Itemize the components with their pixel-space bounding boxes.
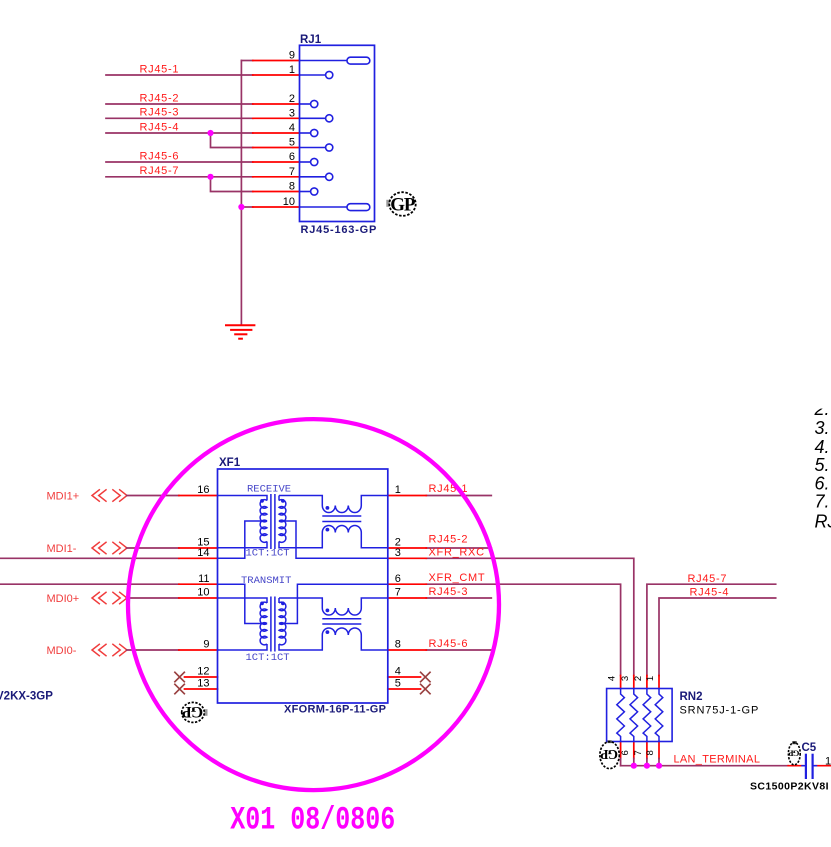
- polarity dot receive choke top: [326, 506, 330, 510]
- svg-text:XF1: XF1: [219, 457, 241, 469]
- svg-text:GP: GP: [600, 747, 618, 762]
- wire LAN_TERMINAL bus: [621, 765, 789, 767]
- svg-text:1: 1: [289, 64, 295, 76]
- pin stub RN2 pin3 top: [633, 676, 635, 689]
- XF1 receive choke core: [322, 515, 361, 517]
- no-connect X pin4: [421, 672, 430, 681]
- svg-text:RJ45-1: RJ45-1: [140, 63, 180, 75]
- stamp GP near RJ1: [386, 192, 416, 216]
- highlight circle around XF1: [128, 419, 499, 790]
- wire RJ45-7 net: [106, 176, 253, 178]
- svg-text:RJ45-6: RJ45-6: [429, 638, 469, 650]
- pin stub XF1 pin10: [179, 597, 218, 599]
- svg-text:V2KX-3GP: V2KX-3GP: [0, 691, 53, 703]
- wire RJ45-3 net: [106, 117, 253, 119]
- transformer XF1 body: [218, 469, 388, 703]
- junction dot RJ45-7/pin8: [207, 174, 213, 180]
- svg-text:10: 10: [197, 587, 209, 599]
- port MDI1+ chevrons: [92, 490, 127, 501]
- svg-text:13: 13: [197, 678, 209, 690]
- svg-text:11: 11: [198, 573, 209, 585]
- wire pin9 to bus: [241, 60, 252, 62]
- svg-text:RJ: RJ: [815, 511, 831, 531]
- svg-text:2: 2: [633, 676, 644, 681]
- resistor RN2 element 2: [630, 689, 638, 742]
- wire pin11 off-page: [0, 583, 179, 585]
- RJ1 pin10 internal lead and oval: [300, 206, 348, 208]
- pin stub XF1 pin2: [388, 547, 427, 549]
- resistor RN2 element 3: [643, 689, 651, 742]
- svg-text:8: 8: [289, 181, 295, 193]
- svg-text:9: 9: [289, 50, 295, 62]
- pin stub XF1 pin3: [388, 557, 427, 559]
- XF1 receive choke top winding to pin1: [279, 496, 322, 506]
- svg-text:5: 5: [289, 137, 295, 149]
- pin stub RN2 pin5 bottom: [620, 742, 622, 759]
- wire ground bus vertical: [240, 61, 242, 326]
- RJ1 pin4 internal lead and circle: [300, 132, 311, 134]
- svg-text:RJ1: RJ1: [300, 34, 322, 46]
- svg-text:3: 3: [289, 107, 295, 119]
- pin stub RJ1 pin10: [253, 206, 300, 208]
- svg-text:RJ45-3: RJ45-3: [140, 107, 180, 119]
- pin stub XF1 pin6: [388, 583, 427, 585]
- svg-text:1: 1: [395, 484, 401, 496]
- port MDI0+ chevrons: [92, 592, 127, 603]
- ground symbol: [225, 325, 255, 339]
- resistor network RN2 body: [607, 689, 673, 742]
- pin stub RJ1 pin1: [253, 74, 300, 76]
- XF1 transmit core: [270, 597, 272, 652]
- pin stub RJ1 pin7: [253, 176, 300, 178]
- pin stub XF1 pin16: [179, 495, 218, 497]
- no-connect X pin5: [421, 684, 430, 693]
- wire MDI1- to pin15: [127, 547, 179, 549]
- svg-text:9: 9: [203, 639, 209, 651]
- svg-text:MDI0+: MDI0+: [47, 593, 80, 605]
- pin stub XF1 pin14: [179, 557, 218, 559]
- pin stub RJ1 pin6: [253, 161, 300, 163]
- polarity dot transmit choke top: [326, 609, 330, 613]
- wire RJ45-4 to RN2: [659, 598, 776, 676]
- svg-text:1: 1: [825, 755, 831, 767]
- pin stub XF1 pin15: [179, 547, 218, 549]
- wire RJ45-1 net: [106, 74, 253, 76]
- wire RN2 pin5 to LAN: [620, 759, 622, 766]
- svg-text:4: 4: [289, 122, 295, 134]
- svg-text:5.: 5.: [815, 455, 830, 475]
- svg-text:XFR_CMT: XFR_CMT: [429, 572, 486, 584]
- svg-text:14: 14: [197, 547, 209, 559]
- XF1 receive secondary winding: [278, 496, 280, 501]
- svg-text:4.: 4.: [815, 437, 830, 457]
- pin stub XF1 pin11: [179, 583, 218, 585]
- pin stub RJ1 pin3: [253, 117, 300, 119]
- white mask clipping top of note 2: [805, 396, 831, 409]
- svg-text:RJ45-163-GP: RJ45-163-GP: [301, 224, 378, 236]
- pin stub RJ1 pin4: [253, 132, 300, 134]
- pin stub XF1 pin1: [388, 495, 427, 497]
- svg-text:XFORM-16P-11-GP: XFORM-16P-11-GP: [284, 704, 386, 716]
- wire pin10 to bus: [241, 206, 252, 208]
- polarity dot receive choke bottom: [326, 528, 330, 532]
- wire pin7 RJ45-3: [426, 597, 491, 599]
- wire RJ45-4 net: [106, 132, 253, 134]
- XF1 receive core: [270, 494, 272, 549]
- XF1 receive primary center tap to pin14: [218, 521, 268, 558]
- wire RJ45-7 to RN2: [647, 584, 776, 675]
- pin stub RJ1 pin8: [253, 191, 300, 193]
- XF1 transmit secondary winding: [278, 598, 280, 603]
- svg-text:3: 3: [395, 547, 401, 559]
- svg-text:RJ45-7: RJ45-7: [688, 573, 728, 585]
- svg-text:RJ45-2: RJ45-2: [140, 92, 180, 104]
- svg-text:5: 5: [395, 678, 401, 690]
- svg-text:MDI1-: MDI1-: [47, 543, 77, 555]
- no-connect X pin12: [175, 672, 184, 681]
- pin stub XF1 pin7: [388, 597, 427, 599]
- RJ1 pin7 internal lead and circle: [300, 176, 326, 178]
- svg-text:1CT:1CT: 1CT:1CT: [246, 547, 290, 559]
- wire pin6 XFR_CMT: [426, 584, 620, 675]
- no-connect X pin13: [175, 684, 184, 693]
- svg-text:RJ45-6: RJ45-6: [140, 150, 180, 162]
- pin stub RJ1 pin2: [253, 103, 300, 105]
- RJ1 pin9 internal lead and oval: [300, 60, 348, 62]
- pin stub XF1 pin12: [185, 676, 218, 678]
- wire RJ45-4 branch to pin5: [211, 133, 253, 148]
- RJ1 pin2 internal lead and circle: [300, 103, 311, 105]
- RJ1 pin5 internal lead and circle: [300, 147, 326, 149]
- svg-text:RJ45-7: RJ45-7: [140, 165, 180, 177]
- svg-text:8: 8: [645, 750, 656, 755]
- pin stub C5 pin1 right: [815, 765, 831, 767]
- polarity dot transmit choke bottom: [326, 630, 330, 634]
- wire pin1 RJ45-1: [426, 495, 491, 497]
- svg-text:6.: 6.: [815, 473, 830, 493]
- svg-text:RJ45-2: RJ45-2: [429, 534, 469, 546]
- capacitor C5: [802, 755, 817, 778]
- pin stub XF1 pin9: [179, 649, 218, 651]
- svg-text:RECEIVE: RECEIVE: [247, 484, 291, 496]
- pin stub XF1 pin4: [388, 676, 421, 678]
- svg-text:GP: GP: [789, 748, 800, 758]
- svg-text:4: 4: [395, 666, 401, 678]
- wire pin3 XFR_RXC: [426, 558, 634, 675]
- svg-text:RJ45-4: RJ45-4: [690, 587, 730, 599]
- svg-text:TRANSMIT: TRANSMIT: [241, 575, 291, 587]
- svg-text:C5: C5: [802, 742, 817, 754]
- svg-text:1CT:1CT: 1CT:1CT: [246, 652, 290, 664]
- pin stub XF1 pin5: [388, 688, 421, 690]
- pin stub RN2 pin8 bottom: [658, 742, 660, 759]
- svg-text:6: 6: [289, 151, 295, 163]
- stamp GP near XF1 rotated: [182, 702, 208, 722]
- pin stub XF1 pin8: [388, 649, 427, 651]
- svg-text:LAN_TERMINAL: LAN_TERMINAL: [674, 754, 761, 766]
- polarity dot receive primary: [260, 499, 264, 503]
- polarity dot transmit secondary: [281, 602, 285, 606]
- stamp GP near C5 rotated 90: [788, 741, 800, 765]
- stamp GP near RN2 rotated: [600, 740, 619, 768]
- svg-text:12: 12: [197, 666, 209, 678]
- XF1 transmit choke top winding to pin7: [279, 598, 322, 608]
- pin stub RN2 pin1 top: [658, 676, 660, 689]
- wire RJ45-2 net: [106, 103, 253, 105]
- wire RJ45-6 net: [106, 161, 253, 163]
- svg-text:RJ45-3: RJ45-3: [429, 586, 469, 598]
- svg-text:GP: GP: [182, 703, 203, 720]
- junction dot pin10/ground bus: [238, 204, 244, 210]
- svg-text:16: 16: [197, 484, 209, 496]
- wire RN2 pin7 to LAN: [646, 759, 648, 766]
- XF1 receive choke bottom winding to pin2: [322, 526, 361, 533]
- svg-text:7.: 7.: [815, 491, 830, 511]
- svg-text:1: 1: [645, 676, 656, 681]
- svg-text:7: 7: [633, 750, 644, 755]
- XF1 transmit choke core: [322, 618, 361, 620]
- wire MDI0+ to pin10: [127, 597, 179, 599]
- wire RN2 pin8 to LAN: [658, 759, 660, 766]
- wire pin8 RJ45-6: [426, 649, 491, 651]
- svg-text:MDI1+: MDI1+: [47, 491, 80, 503]
- svg-text:RJ45-4: RJ45-4: [140, 121, 180, 133]
- junction dot RN2 pin8: [656, 763, 662, 769]
- XF1 transmit choke bottom winding to pin8: [322, 628, 361, 635]
- svg-text:GP: GP: [390, 194, 416, 215]
- pin stub RN2 pin7 bottom: [646, 742, 648, 759]
- port MDI1- chevrons: [92, 542, 127, 553]
- svg-text:3: 3: [620, 676, 631, 681]
- RJ1 pin6 internal lead and circle: [300, 161, 311, 163]
- XF1 transmit primary center tap to pin11: [218, 584, 268, 623]
- svg-text:RN2: RN2: [680, 691, 703, 703]
- svg-text:10: 10: [283, 196, 295, 208]
- RJ1 pin3 internal lead and circle: [300, 117, 326, 119]
- svg-text:7: 7: [289, 166, 295, 178]
- RJ1 pin8 internal lead and circle: [300, 191, 311, 193]
- pin stub C5 pin left: [788, 765, 803, 767]
- XF1 receive secondary center tap to pin3: [279, 521, 388, 558]
- pin stub RN2 pin6 bottom: [633, 742, 635, 759]
- svg-text:2: 2: [289, 93, 295, 105]
- resistor RN2 element 1: [617, 689, 625, 742]
- notes list italic: [814, 399, 831, 531]
- svg-text:6: 6: [620, 750, 631, 755]
- XF1 transmit primary winding: [218, 598, 268, 603]
- wire RN2 pin6 to LAN: [633, 759, 635, 766]
- RJ1 pin1 internal lead and circle: [300, 74, 326, 76]
- svg-text:X01 08/0806: X01 08/0806: [230, 801, 395, 838]
- svg-text:8: 8: [395, 639, 401, 651]
- XF1 receive primary winding: [218, 496, 268, 501]
- wire pin2 RJ45-2: [426, 547, 491, 549]
- pin stub RJ1 pin9: [253, 60, 300, 62]
- svg-text:SRN75J-1-GP: SRN75J-1-GP: [680, 705, 760, 717]
- pin stub RJ1 pin5: [253, 147, 300, 149]
- svg-text:4: 4: [607, 676, 618, 681]
- wire MDI0- to pin9: [127, 649, 179, 651]
- junction dot RN2 pin7: [644, 763, 650, 769]
- wire pin14 off-page: [0, 557, 179, 559]
- svg-text:7: 7: [395, 587, 401, 599]
- svg-text:SC1500P2KV8I: SC1500P2KV8I: [750, 781, 829, 793]
- pin stub RN2 pin4 top: [620, 676, 622, 689]
- junction dot RJ45-4/pin5: [207, 130, 213, 136]
- connector RJ1 body: [300, 45, 375, 221]
- junction dot RN2 pin6: [631, 763, 637, 769]
- polarity dot transmit primary: [260, 602, 264, 606]
- pin stub RN2 pin2 top: [646, 676, 648, 689]
- XF1 transmit secondary center tap to pin6: [279, 584, 388, 623]
- port MDI0- chevrons: [92, 644, 127, 655]
- polarity dot receive secondary: [281, 499, 285, 503]
- svg-text:3.: 3.: [815, 418, 830, 438]
- wire MDI1+ to pin16: [127, 495, 179, 497]
- svg-text:XFR_RXC: XFR_RXC: [429, 546, 485, 558]
- svg-text:6: 6: [395, 573, 401, 585]
- pin stub XF1 pin13: [185, 688, 218, 690]
- svg-text:MDI0-: MDI0-: [47, 645, 77, 657]
- resistor RN2 element 4: [655, 689, 663, 742]
- wire RJ45-7 branch to pin8: [211, 177, 253, 192]
